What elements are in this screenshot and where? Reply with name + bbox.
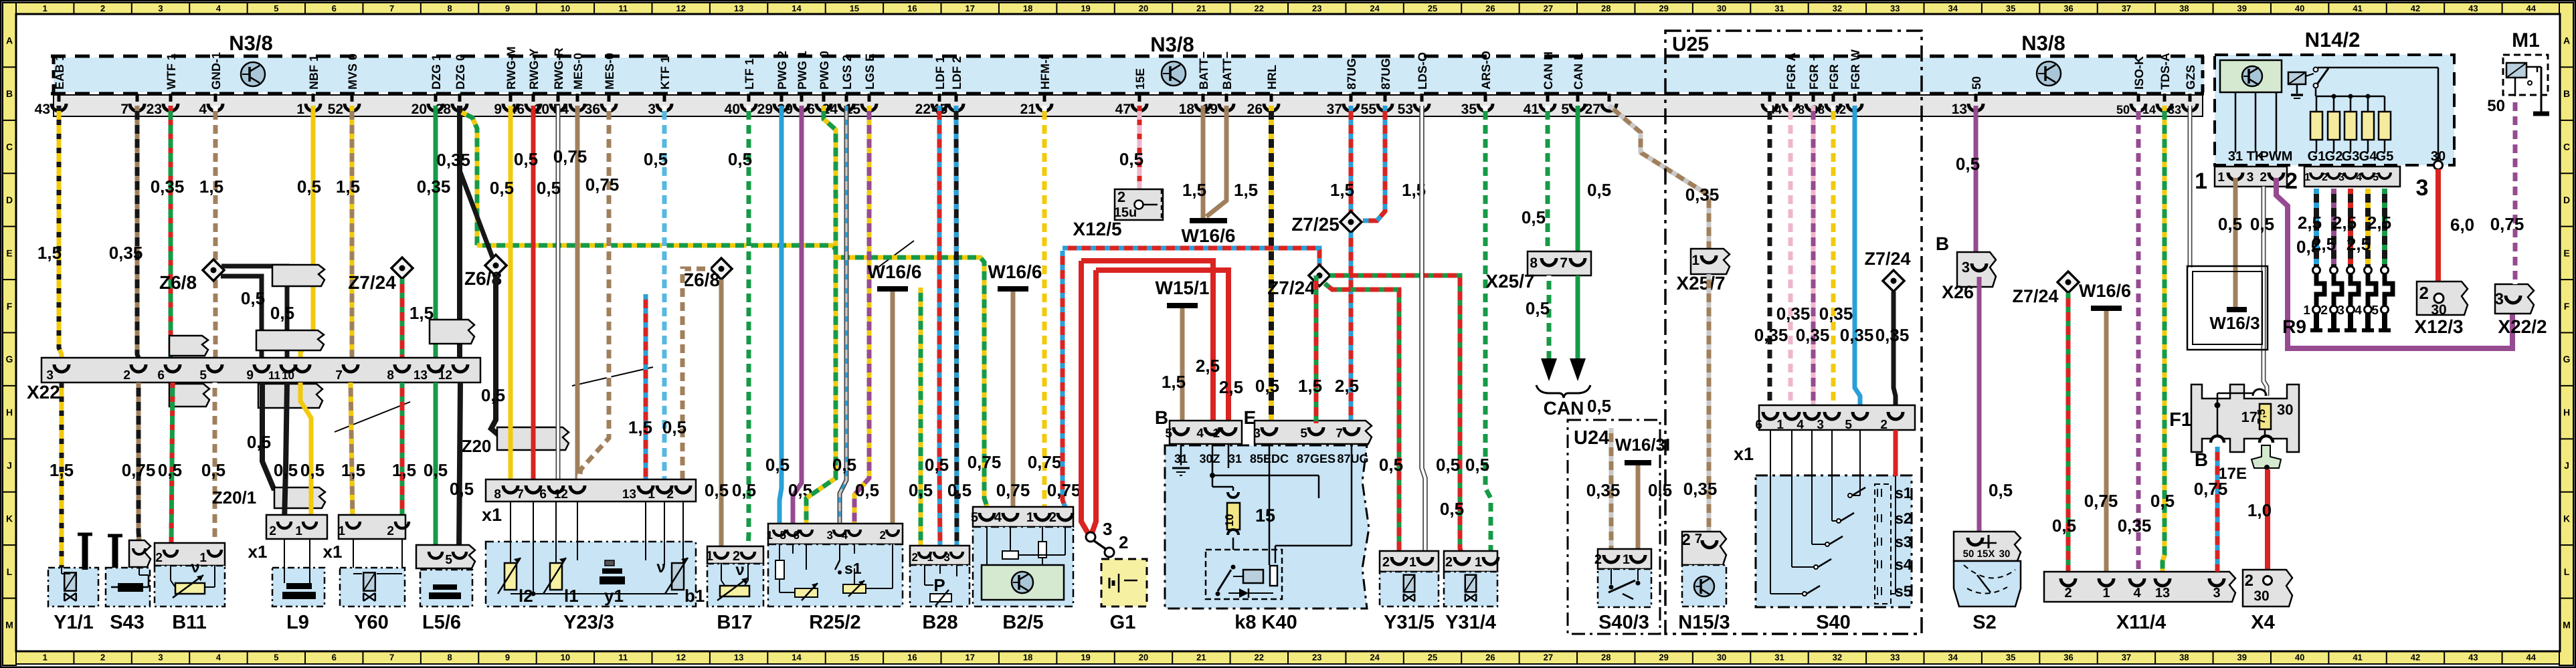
svg-text:l1: l1 bbox=[564, 586, 579, 606]
svg-text:30: 30 bbox=[1717, 653, 1726, 663]
svg-text:43: 43 bbox=[35, 102, 50, 117]
svg-text:8: 8 bbox=[447, 653, 452, 663]
svg-text:6: 6 bbox=[807, 102, 815, 117]
svg-text:3: 3 bbox=[648, 102, 656, 117]
svg-text:LTF 1: LTF 1 bbox=[743, 58, 756, 90]
svg-text:27: 27 bbox=[1544, 653, 1553, 663]
svg-text:87UG: 87UG bbox=[1379, 58, 1392, 90]
svg-text:42: 42 bbox=[2411, 653, 2420, 663]
svg-text:2: 2 bbox=[269, 524, 276, 538]
svg-text:W16/3I: W16/3I bbox=[1615, 435, 1670, 455]
wire HRL black/yellow bbox=[1269, 106, 1274, 423]
ground strap left bbox=[82, 535, 88, 570]
connector Y31/4 bbox=[1444, 551, 1497, 572]
svg-text:FGR W: FGR W bbox=[1849, 49, 1862, 90]
svg-text:0,35: 0,35 bbox=[1683, 479, 1718, 499]
svg-text:S40/3: S40/3 bbox=[1598, 612, 1649, 633]
S40 internal switch cascade bbox=[1770, 430, 1771, 594]
svg-text:4: 4 bbox=[1196, 427, 1204, 441]
svg-text:2: 2 bbox=[666, 487, 674, 502]
svg-text:41: 41 bbox=[2353, 653, 2362, 663]
glow plug 3 bbox=[2347, 267, 2355, 274]
K40 B pin 4 bbox=[1205, 427, 1220, 435]
svg-text:9: 9 bbox=[505, 3, 510, 13]
svg-text:1: 1 bbox=[43, 653, 48, 663]
svg-text:2: 2 bbox=[2064, 586, 2072, 600]
wire FGR A pink/white bbox=[1788, 106, 1793, 405]
svg-text:K: K bbox=[6, 513, 13, 524]
wire RWG-R white bbox=[556, 106, 561, 483]
wire GND-1 brown/white bbox=[213, 106, 218, 358]
svg-text:87UG: 87UG bbox=[1337, 452, 1368, 465]
svg-text:0,5: 0,5 bbox=[241, 288, 265, 308]
svg-text:35: 35 bbox=[2006, 653, 2015, 663]
svg-text:2: 2 bbox=[1445, 555, 1453, 570]
svg-text:55: 55 bbox=[1361, 102, 1377, 117]
glow wire G3 bbox=[2348, 189, 2353, 266]
svg-text:2: 2 bbox=[155, 551, 163, 565]
svg-text:12: 12 bbox=[438, 368, 452, 382]
black wires from Z6/8 to X22 bbox=[221, 266, 287, 358]
svg-text:40: 40 bbox=[2295, 3, 2304, 13]
svg-text:0,5: 0,5 bbox=[765, 455, 790, 475]
svg-text:33: 33 bbox=[2168, 103, 2181, 116]
wire TDS-A green/yellow bbox=[2163, 106, 2165, 572]
svg-text:3: 3 bbox=[2416, 175, 2429, 201]
svg-text:0,5: 0,5 bbox=[247, 432, 271, 452]
wire DZG0 yellow-green branch to bus bbox=[462, 112, 477, 245]
N3/8 pin 46 RWG-Y bbox=[532, 94, 535, 102]
svg-text:F: F bbox=[2564, 301, 2570, 312]
svg-text:3: 3 bbox=[2338, 172, 2344, 183]
N3/8 pin 5 CAN L bbox=[1576, 94, 1580, 102]
control unit N3/8 band bbox=[54, 58, 2204, 92]
wire 17E red to X4 bbox=[2265, 469, 2270, 575]
svg-text:15E: 15E bbox=[1133, 68, 1147, 90]
wire green/yellow to B28 pin2 bbox=[919, 288, 923, 546]
svg-text:ν: ν bbox=[191, 558, 199, 576]
red/green wire X22-8 to Y60 bbox=[400, 382, 405, 522]
F1 internal wiring bbox=[2217, 393, 2219, 439]
connector housing bbox=[256, 330, 324, 350]
svg-text:x1: x1 bbox=[323, 542, 343, 562]
component S43 switch bbox=[106, 568, 150, 606]
svg-text:1: 1 bbox=[927, 551, 933, 564]
connector S40/3 bbox=[1598, 549, 1651, 569]
svg-text:6: 6 bbox=[1755, 418, 1762, 432]
svg-text:17: 17 bbox=[2241, 409, 2258, 425]
component B17 temp sensor bbox=[707, 564, 763, 606]
svg-text:1: 1 bbox=[1409, 555, 1416, 570]
svg-text:X4: X4 bbox=[2251, 612, 2274, 633]
splice Z7/25 bbox=[1340, 211, 1362, 233]
svg-text:1: 1 bbox=[2303, 304, 2310, 318]
F1 fuse 7,5 bbox=[2260, 404, 2271, 429]
svg-text:22: 22 bbox=[915, 102, 931, 117]
svg-text:0,5: 0,5 bbox=[424, 460, 448, 480]
wire to Y1/1 yellow/black bbox=[60, 382, 64, 568]
svg-text:B: B bbox=[6, 88, 13, 99]
svg-text:DZG 1: DZG 1 bbox=[430, 54, 443, 90]
svg-text:50: 50 bbox=[1970, 76, 1983, 90]
box k8 K40 bbox=[1165, 445, 1369, 608]
svg-text:x1: x1 bbox=[248, 542, 268, 562]
svg-text:40: 40 bbox=[725, 102, 740, 117]
x1 pin 2 bbox=[1888, 412, 1903, 419]
red loop wire to K40 pin1 bbox=[1096, 270, 1228, 435]
wire brown/white Z6/8 to x1-2 bbox=[682, 269, 711, 483]
svg-text:30: 30 bbox=[2277, 401, 2293, 418]
svg-text:32: 32 bbox=[1833, 3, 1842, 13]
svg-text:0,5: 0,5 bbox=[201, 460, 225, 480]
svg-text:30Z: 30Z bbox=[1199, 452, 1220, 465]
svg-text:9: 9 bbox=[246, 368, 254, 382]
svg-text:1: 1 bbox=[1623, 552, 1630, 567]
svg-text:31: 31 bbox=[2228, 149, 2243, 164]
svg-text:D: D bbox=[2563, 195, 2570, 205]
wire PWG 0 green/yellow to bus and R25/2 bbox=[806, 106, 836, 524]
svg-text:15: 15 bbox=[850, 653, 859, 663]
svg-text:0,35: 0,35 bbox=[1754, 325, 1788, 345]
brown stem W16/6 to R25/2 pin2 bbox=[891, 292, 895, 524]
svg-text:1,5: 1,5 bbox=[628, 417, 652, 437]
svg-text:31: 31 bbox=[1228, 452, 1242, 465]
connector X22/2 bbox=[2495, 284, 2534, 314]
svg-text:12: 12 bbox=[554, 487, 568, 502]
N3/8 pin 55 87UG bbox=[1384, 94, 1387, 102]
svg-text:N15/3: N15/3 bbox=[1678, 612, 1730, 633]
svg-text:s3: s3 bbox=[1895, 533, 1912, 550]
svg-text:G5: G5 bbox=[2376, 149, 2394, 164]
wire red/green to X11/4 pin2 bbox=[2066, 293, 2071, 572]
svg-text:0,5: 0,5 bbox=[662, 417, 686, 437]
svg-text:G: G bbox=[6, 354, 13, 364]
wire to B11 pin2 green/red bbox=[171, 382, 173, 543]
K40 E pin 5 bbox=[1309, 427, 1323, 435]
connector B17 bbox=[707, 546, 763, 564]
x1 pin 8 bbox=[503, 485, 518, 493]
wire LDF 2 black/blue to B28 bbox=[956, 106, 957, 546]
svg-text:2: 2 bbox=[2285, 169, 2298, 194]
svg-text:18: 18 bbox=[1179, 102, 1195, 117]
svg-text:34: 34 bbox=[1948, 3, 1958, 13]
wire LGS E purple/yellow to R25/2 bbox=[854, 106, 869, 524]
connector Y31/5 bbox=[1380, 551, 1439, 572]
glow wire G2 bbox=[2331, 189, 2336, 266]
svg-text:W15/1: W15/1 bbox=[1156, 277, 1210, 298]
svg-text:0,5: 0,5 bbox=[1440, 499, 1464, 519]
svg-text:B17: B17 bbox=[717, 612, 752, 633]
svg-text:0,5: 0,5 bbox=[2150, 491, 2175, 511]
svg-text:s1: s1 bbox=[1895, 484, 1912, 502]
N3/8 pin 4 GND-1 bbox=[214, 94, 217, 102]
connector X11/4 bbox=[2044, 572, 2235, 602]
svg-text:0,5: 0,5 bbox=[1956, 154, 1980, 174]
svg-text:4: 4 bbox=[994, 510, 1002, 525]
svg-text:5: 5 bbox=[2373, 172, 2379, 183]
K40 B pin 5 bbox=[1174, 427, 1188, 435]
svg-text:L9: L9 bbox=[286, 612, 309, 633]
N3/8 pin 37 87UG bbox=[1350, 94, 1353, 102]
svg-text:43: 43 bbox=[2468, 653, 2478, 663]
svg-text:3: 3 bbox=[1817, 418, 1824, 432]
svg-text:41: 41 bbox=[2353, 3, 2362, 13]
connector bar X22 bbox=[41, 358, 480, 382]
N3/8 pin 6 PWG 0 bbox=[822, 94, 826, 102]
svg-text:LDS-O: LDS-O bbox=[1416, 52, 1429, 90]
svg-text:7: 7 bbox=[1695, 532, 1702, 546]
svg-text:1,5: 1,5 bbox=[341, 460, 365, 480]
svg-text:1: 1 bbox=[2217, 171, 2225, 185]
svg-text:5: 5 bbox=[2371, 304, 2379, 318]
svg-text:1,5: 1,5 bbox=[1162, 372, 1186, 392]
connector 2/15u bbox=[1115, 189, 1163, 220]
svg-text:23: 23 bbox=[1312, 3, 1321, 13]
svg-text:0,5: 0,5 bbox=[947, 480, 972, 500]
svg-text:Z7/24: Z7/24 bbox=[2012, 286, 2058, 306]
connector Z20/1 bbox=[274, 487, 325, 508]
svg-text:TDS-A: TDS-A bbox=[2158, 53, 2172, 90]
svg-text:S2: S2 bbox=[1972, 612, 1996, 633]
svg-text:N3/8: N3/8 bbox=[1150, 33, 1194, 56]
N3/8 pin 42 FGR W bbox=[1853, 94, 1857, 102]
brown/yellow wire X22-7 to Y60 bbox=[351, 382, 353, 522]
svg-text:E: E bbox=[2563, 247, 2569, 258]
svg-text:0,35: 0,35 bbox=[109, 243, 143, 263]
svg-text:0,35: 0,35 bbox=[1685, 185, 1720, 205]
wire LGS 2 grey/blue to R25/2 bbox=[840, 106, 846, 524]
svg-text:10: 10 bbox=[1223, 514, 1236, 527]
wire GZS white bbox=[2188, 106, 2193, 267]
svg-text:NBF 1: NBF 1 bbox=[307, 55, 320, 90]
wire 87GES red/green bbox=[1314, 275, 1319, 423]
svg-text:BATT−: BATT− bbox=[1220, 51, 1234, 90]
svg-text:BATT−: BATT− bbox=[1197, 51, 1210, 90]
svg-text:0,5: 0,5 bbox=[300, 460, 325, 480]
splice Z6/8 second bbox=[485, 255, 507, 276]
svg-text:W16/6: W16/6 bbox=[868, 261, 922, 282]
component G1 battery bbox=[1101, 559, 1147, 606]
wire 31 brown to W16/3 bbox=[2233, 178, 2238, 307]
svg-text:5: 5 bbox=[274, 3, 278, 13]
svg-text:37: 37 bbox=[2122, 653, 2131, 663]
svg-text:0,5: 0,5 bbox=[297, 177, 321, 197]
wire FGR - yellow/white bbox=[1831, 106, 1836, 405]
svg-text:W16/6: W16/6 bbox=[988, 261, 1042, 282]
svg-text:ARS-O: ARS-O bbox=[1479, 51, 1493, 90]
brown stem W15/1 to K40 pin5 bbox=[1180, 308, 1185, 435]
wire F1-B red/blue to X11/4 bbox=[2215, 447, 2220, 572]
wire RWG-Y red bbox=[531, 106, 536, 483]
svg-text:2: 2 bbox=[123, 368, 130, 382]
wire HFM-I yellow/white to B2/5 bbox=[1042, 106, 1047, 507]
svg-text:3: 3 bbox=[1253, 427, 1261, 441]
svg-text:16: 16 bbox=[907, 3, 917, 13]
svg-text:16: 16 bbox=[907, 653, 917, 663]
x1 pin 4 bbox=[1805, 412, 1819, 419]
svg-text:0,5: 0,5 bbox=[481, 385, 505, 405]
wire brown/grey to S40/3 pin2 bbox=[1609, 428, 1614, 549]
K40 internal wiring bbox=[1180, 444, 1182, 465]
connector housing bbox=[430, 320, 474, 344]
svg-text:0,5: 0,5 bbox=[537, 178, 561, 198]
pointer line bbox=[335, 402, 410, 432]
svg-text:50: 50 bbox=[1963, 548, 1974, 560]
svg-text:33: 33 bbox=[1890, 653, 1900, 663]
connector housing bbox=[272, 265, 325, 286]
svg-text:G1: G1 bbox=[1110, 612, 1136, 633]
svg-text:15: 15 bbox=[850, 3, 859, 13]
wires below X25/7 to CAN arrows bbox=[1547, 275, 1552, 358]
red/green wire Z7/24 to Y31/5 bbox=[1325, 284, 1399, 551]
svg-text:CAN: CAN bbox=[1544, 398, 1584, 419]
wire KTF 1 blue/white bbox=[662, 106, 667, 483]
glow wire G1 bbox=[2314, 189, 2319, 266]
svg-text:32: 32 bbox=[1833, 653, 1842, 663]
component B28 pressure sensor bbox=[910, 565, 970, 606]
svg-text:19: 19 bbox=[1081, 3, 1090, 13]
x1 pin 2 bbox=[676, 485, 691, 493]
component N15/3 bbox=[1682, 532, 1726, 565]
N3/8 pin 26 HRL bbox=[1270, 94, 1273, 102]
svg-text:D: D bbox=[6, 195, 13, 205]
svg-text:0,5: 0,5 bbox=[270, 303, 294, 323]
N3/8 pin 50 ISO-K bbox=[2137, 94, 2140, 102]
svg-text:M1: M1 bbox=[2512, 29, 2540, 51]
component Y31/4 valve bbox=[1444, 572, 1497, 606]
N3/8 pin 9 RWG-M bbox=[509, 94, 513, 102]
svg-text:31: 31 bbox=[1774, 3, 1784, 13]
svg-text:PWG 2: PWG 2 bbox=[775, 51, 789, 90]
svg-text:19: 19 bbox=[1081, 653, 1090, 663]
svg-text:1: 1 bbox=[1776, 418, 1784, 432]
svg-text:3: 3 bbox=[1103, 519, 1112, 539]
B2/5 pin 2 bbox=[1058, 513, 1073, 520]
component B11 temp sensor bbox=[155, 566, 225, 606]
svg-text:13: 13 bbox=[2155, 586, 2170, 600]
svg-text:9: 9 bbox=[494, 102, 502, 117]
svg-text:LDF 2: LDF 2 bbox=[950, 56, 963, 90]
N3/8 pin 19 BATT&#8722; bbox=[1225, 94, 1228, 102]
svg-text:34: 34 bbox=[1948, 653, 1958, 663]
X22 pin 9 bbox=[254, 364, 269, 372]
svg-text:29: 29 bbox=[757, 102, 773, 117]
x1 pin 12 bbox=[570, 485, 585, 493]
wire X12/5 red/blue loop bbox=[1063, 251, 1065, 507]
wire PWM purple bbox=[2276, 178, 2288, 346]
svg-text:FGR A: FGR A bbox=[1784, 53, 1798, 90]
X22 pin 7 bbox=[343, 364, 358, 372]
svg-text:CAN H: CAN H bbox=[1542, 51, 1555, 90]
svg-text:1: 1 bbox=[296, 102, 304, 117]
svg-text:X26: X26 bbox=[1942, 282, 1974, 302]
F1 pin 17E connector bbox=[2260, 436, 2273, 443]
B28 pin 1 bbox=[934, 552, 946, 558]
svg-text:R9: R9 bbox=[2282, 316, 2306, 337]
svg-text:MVS 0: MVS 0 bbox=[346, 53, 359, 90]
svg-text:87UG: 87UG bbox=[1345, 58, 1358, 90]
N3/8 pin 29 PWG 2 bbox=[780, 94, 784, 102]
svg-text:2,5: 2,5 bbox=[2332, 213, 2357, 233]
svg-text:M: M bbox=[5, 619, 13, 630]
X22 pin 13 bbox=[428, 364, 443, 372]
R25/2 pin 2 bbox=[887, 530, 899, 536]
K40 E pin 3 bbox=[1262, 427, 1277, 435]
red/green wire Z7/24 to Y31/4 bbox=[1330, 275, 1462, 555]
svg-text:0,5: 0,5 bbox=[450, 479, 474, 499]
wire DZG 1 green bbox=[434, 106, 438, 358]
wire brown/grey to N15/3 bbox=[1707, 274, 1712, 535]
svg-text:W16/3: W16/3 bbox=[2209, 313, 2260, 333]
svg-text:10: 10 bbox=[534, 102, 549, 117]
N3/8 pin 18 BATT&#8722; bbox=[1202, 94, 1205, 102]
wire Z7/24 red/green to X22 bbox=[400, 279, 405, 358]
svg-text:18: 18 bbox=[1023, 3, 1032, 13]
svg-text:44: 44 bbox=[2526, 3, 2537, 13]
svg-text:b1: b1 bbox=[684, 586, 705, 606]
svg-text:0,5: 0,5 bbox=[705, 480, 729, 500]
svg-text:14: 14 bbox=[2142, 103, 2156, 116]
battery terminal circles bbox=[1086, 532, 1095, 542]
svg-text:17: 17 bbox=[965, 3, 975, 13]
svg-text:G1: G1 bbox=[2308, 149, 2326, 164]
svg-text:1: 1 bbox=[295, 524, 302, 538]
N14/2 wire to 30 bbox=[2318, 67, 2438, 69]
svg-text:54: 54 bbox=[553, 102, 569, 117]
svg-text:0,5: 0,5 bbox=[1587, 396, 1611, 416]
svg-text:24: 24 bbox=[1370, 3, 1380, 13]
svg-text:28: 28 bbox=[1601, 3, 1611, 13]
svg-text:41: 41 bbox=[1524, 102, 1540, 117]
connector X12/3 bbox=[2417, 282, 2468, 315]
svg-text:13: 13 bbox=[734, 3, 743, 13]
svg-text:39: 39 bbox=[2237, 653, 2247, 663]
svg-text:0,5: 0,5 bbox=[925, 455, 949, 475]
X11/4 pin 4 bbox=[2130, 578, 2144, 586]
wire EAB 1 yellow/black bbox=[59, 106, 62, 358]
svg-text:B: B bbox=[1936, 233, 1949, 254]
black wire X22-11 to L9 bbox=[284, 382, 287, 522]
svg-text:50: 50 bbox=[2487, 97, 2505, 115]
svg-text:10: 10 bbox=[561, 653, 570, 663]
box U24 bbox=[1568, 420, 1660, 634]
R25/2 pin 3 bbox=[834, 530, 846, 536]
connector bar x1 right bbox=[1759, 405, 1915, 430]
svg-text:A: A bbox=[6, 35, 13, 46]
pointer line bbox=[875, 241, 914, 269]
svg-text:39: 39 bbox=[2237, 3, 2247, 13]
wire ARS-O green/white to Y31/4 bbox=[1485, 106, 1491, 551]
component S40/3 kickdown switch bbox=[1598, 569, 1651, 607]
svg-text:1,5: 1,5 bbox=[392, 460, 416, 480]
X22 pin 5 bbox=[207, 364, 222, 372]
x1 pin 6 bbox=[1763, 412, 1778, 419]
svg-text:1,5: 1,5 bbox=[37, 243, 62, 263]
svg-text:X22: X22 bbox=[27, 382, 60, 403]
svg-text:20: 20 bbox=[1139, 653, 1148, 663]
svg-text:35: 35 bbox=[1461, 102, 1477, 117]
svg-text:50: 50 bbox=[2116, 103, 2130, 116]
svg-text:5: 5 bbox=[780, 529, 786, 542]
N14/2 glow fuses G1-G5 bbox=[2316, 96, 2318, 112]
R25/2 pin 1 bbox=[773, 530, 786, 536]
black wire X22-12 to L5/6 bbox=[459, 382, 460, 552]
svg-text:4: 4 bbox=[2356, 172, 2362, 183]
Y23/3 l2 sensor bbox=[504, 563, 517, 590]
svg-text:6: 6 bbox=[539, 487, 547, 502]
svg-text:4: 4 bbox=[842, 529, 848, 542]
housing below X22 bbox=[169, 384, 209, 407]
